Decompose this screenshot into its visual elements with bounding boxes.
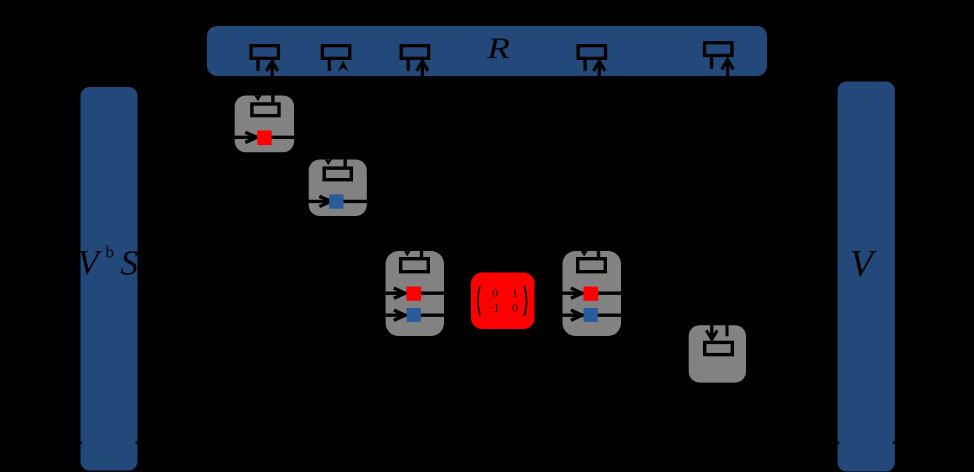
matrix paren left	[478, 286, 480, 316]
box B1 (gray cell, red state)	[235, 96, 294, 153]
wire W1	[226, 136, 302, 139]
svg-text:−1: −1	[487, 302, 499, 314]
state square S4b (blue)	[584, 308, 598, 322]
icon monitor T3	[401, 46, 428, 80]
svg-text:b: b	[106, 243, 115, 262]
state square S2 (blue)	[329, 194, 343, 208]
arrowhead A3a	[394, 288, 405, 298]
svg-text:1: 1	[512, 288, 518, 300]
arrowhead A4b	[571, 310, 582, 320]
wire W2	[300, 200, 375, 203]
bar VbS (left reservoir)	[81, 87, 138, 471]
state square S4a (red)	[584, 287, 599, 301]
bar R (top reservoir)	[207, 26, 767, 76]
state square S3b (blue)	[407, 308, 421, 322]
monitor M3	[401, 248, 429, 271]
box B3 (tall gray cell)	[386, 251, 444, 336]
wire nub left-bar left edge	[80, 441, 82, 444]
monitor M4	[578, 248, 606, 271]
arrowhead A3b	[394, 310, 405, 320]
wire W4a	[555, 292, 629, 295]
wire nub left-bar right edge	[135, 441, 137, 444]
wire W4b	[555, 314, 629, 317]
wire W3a	[378, 292, 452, 295]
box B2 (gray cell, blue state)	[309, 160, 367, 217]
wire nub right-bar right edge	[893, 441, 895, 444]
wire nub right-bar left edge	[837, 441, 839, 444]
bar V (right reservoir)	[838, 82, 895, 472]
icon monitor T4	[578, 46, 605, 80]
matrix paren right	[524, 286, 526, 316]
svg-text:0: 0	[512, 302, 518, 314]
box B4 (tall gray cell)	[563, 251, 622, 336]
wire W3b	[378, 314, 452, 317]
arrowhead A1	[245, 132, 256, 142]
box B5 (gray cell, output)	[689, 325, 746, 382]
svg-text:V: V	[78, 243, 103, 282]
svg-text:S: S	[121, 244, 139, 283]
arrowhead A2	[319, 196, 331, 206]
matrix box (red)	[471, 273, 535, 330]
icon monitor T5	[705, 43, 734, 85]
state square S1 (red)	[257, 131, 271, 146]
monitor M2	[323, 157, 351, 180]
svg-text:V: V	[850, 243, 877, 285]
arrowhead A4a	[571, 288, 582, 298]
svg-text:R: R	[486, 32, 510, 65]
state square S3a (red)	[407, 287, 422, 301]
svg-text:0: 0	[492, 288, 498, 300]
icon monitor T2	[322, 46, 349, 72]
monitor M1	[252, 93, 279, 116]
icon monitor T1	[251, 46, 278, 80]
monitor M5	[705, 318, 733, 355]
